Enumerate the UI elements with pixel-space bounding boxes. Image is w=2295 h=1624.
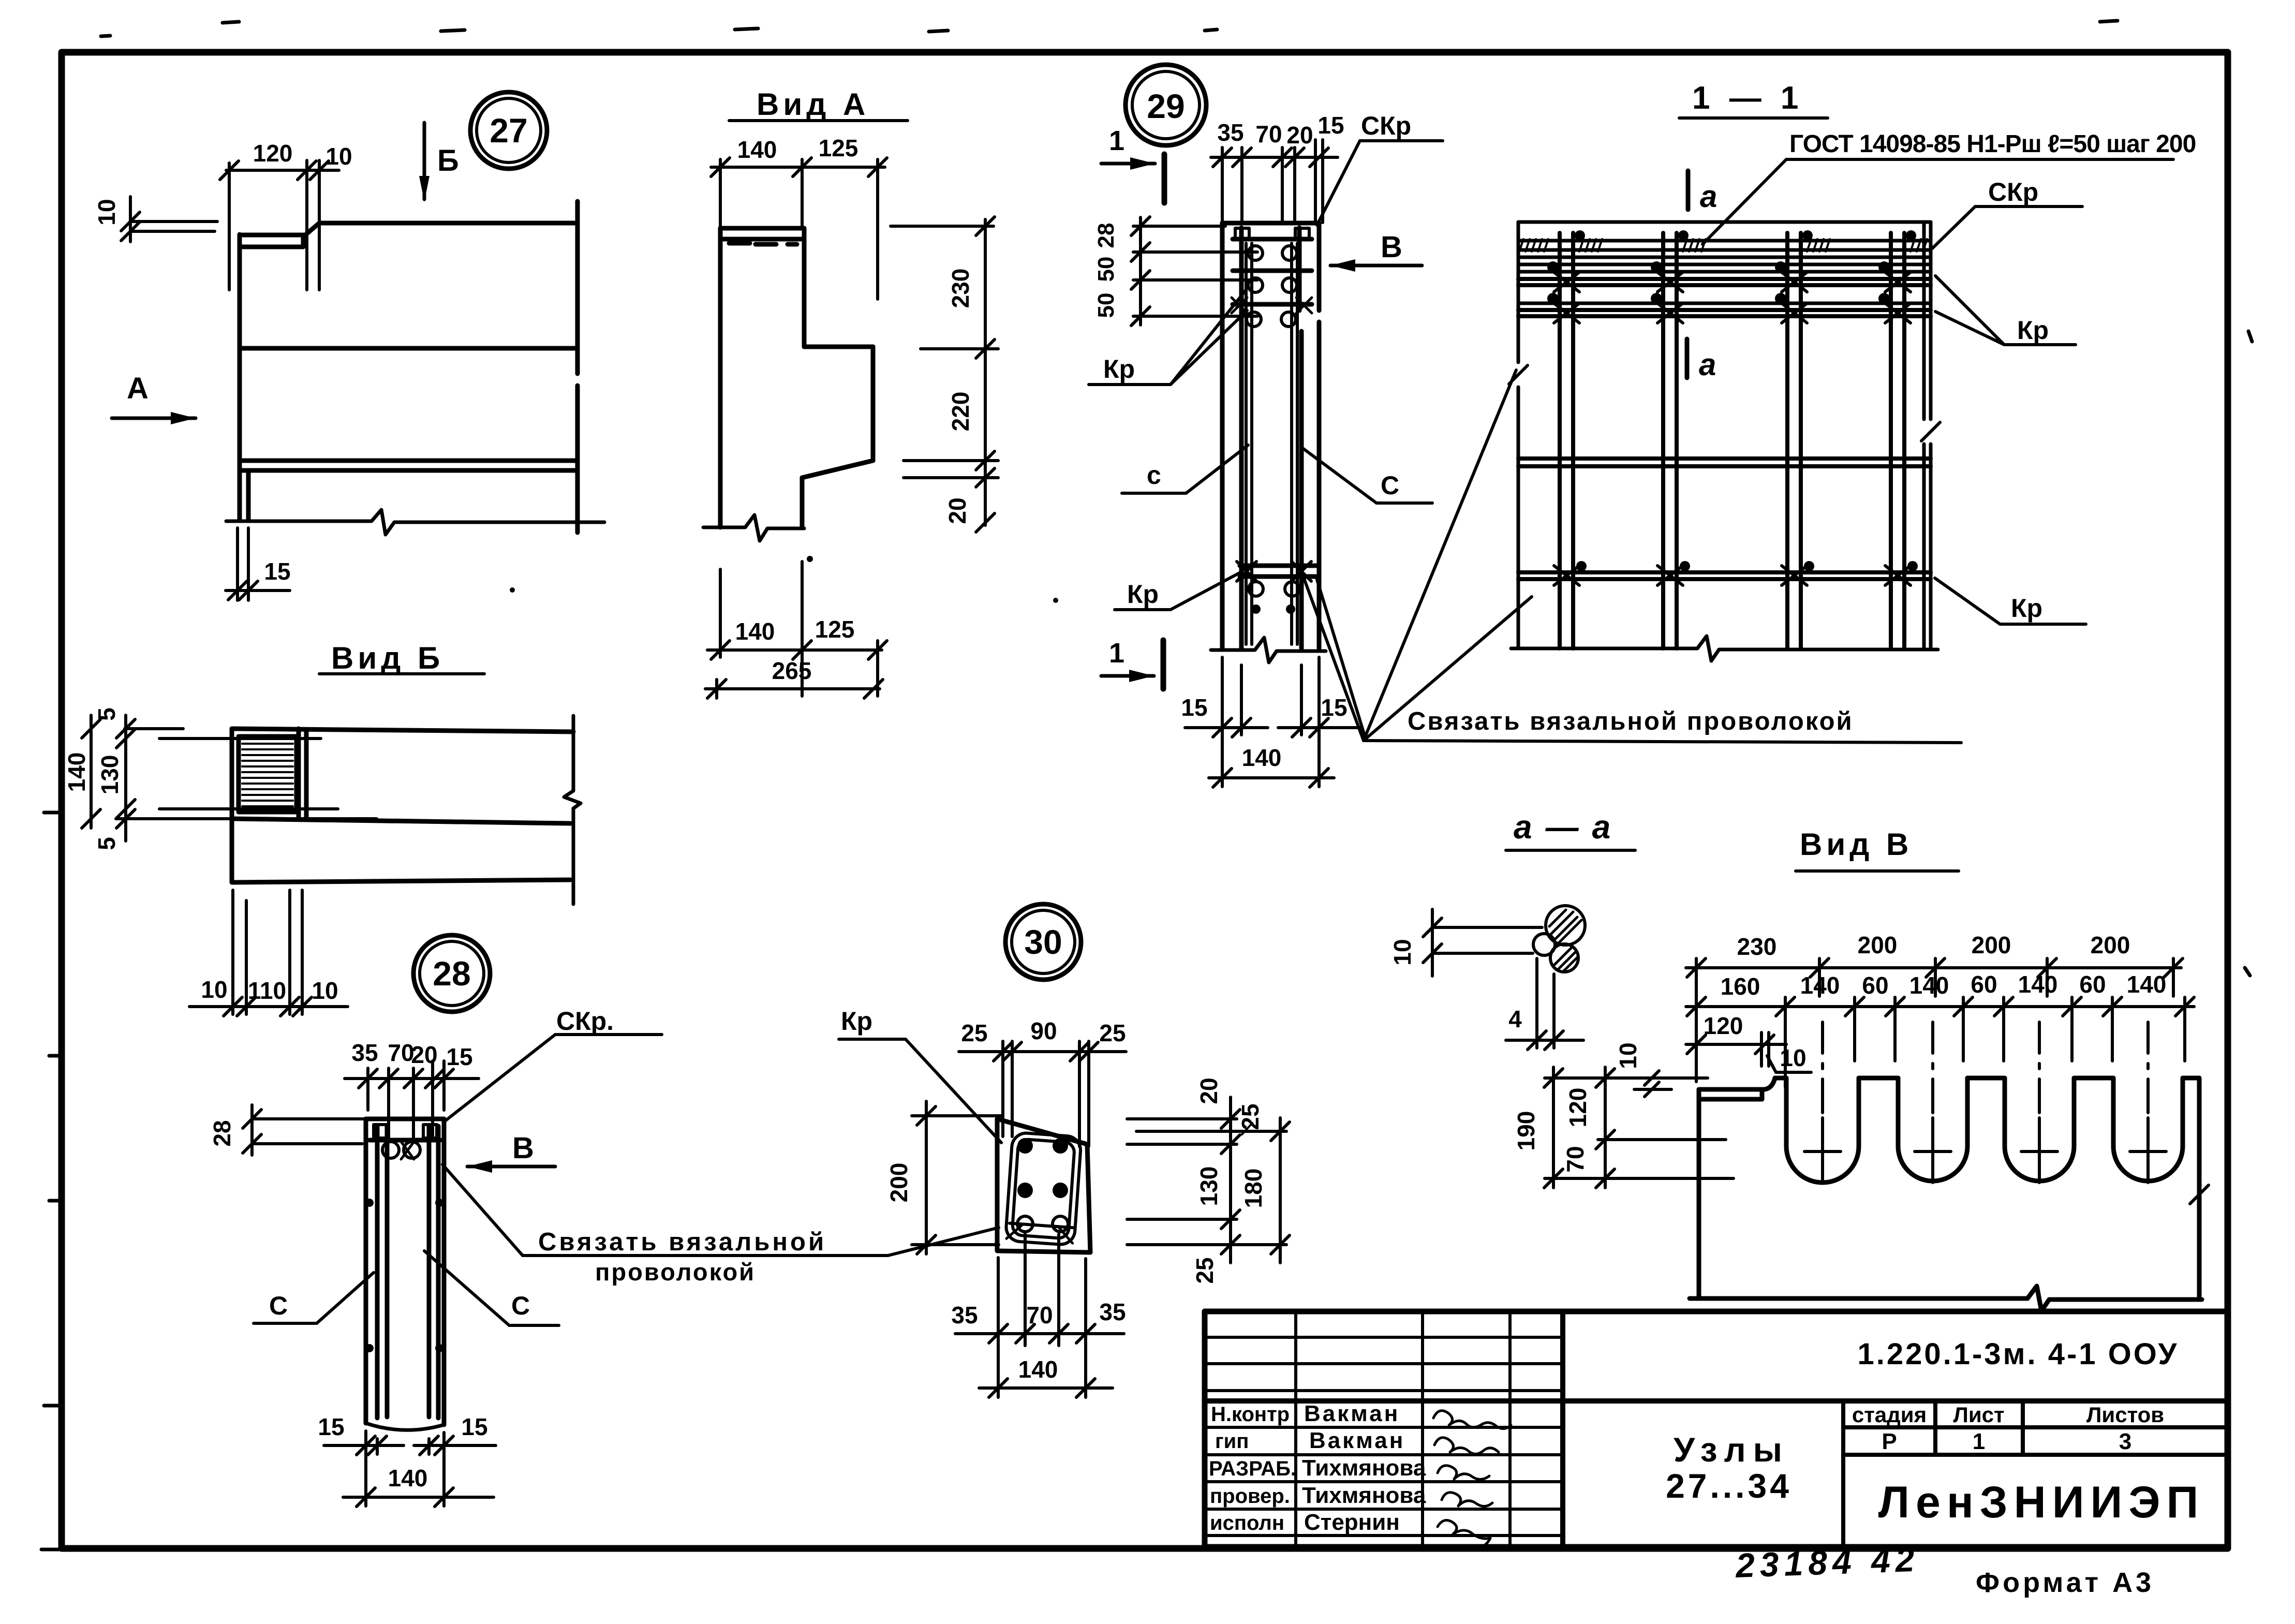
section mark 1 (top) [1101,125,1164,203]
label СКр. with leader (detail 28) [445,1007,662,1121]
section mark 1 (bottom) [1101,638,1163,689]
svg-text:4: 4 [1508,1006,1522,1032]
view arrow В (detail 28) [467,1131,555,1173]
left dimension chain 190/120/70 (view В) [1513,1067,1734,1188]
view title Вид В [1796,827,1959,871]
left dimension 28 of detail 28 [209,1105,364,1155]
svg-text:29: 29 [1147,87,1184,125]
fold mark ticks on frame [41,813,63,1549]
svg-text:130: 130 [96,755,123,795]
svg-text:70: 70 [1026,1302,1053,1328]
left dimension 200 (detail 30) [885,1101,1001,1254]
svg-text:С: С [269,1291,288,1320]
svg-text:23184 42: 23184 42 [1734,1540,1920,1585]
svg-text:РАЗРАБ.: РАЗРАБ. [1209,1457,1296,1480]
dimension 120/10 top of detail 27 [220,140,352,290]
svg-text:15: 15 [1321,694,1347,721]
bottom dimensions 10/110/10 of view Б [189,890,348,1016]
svg-text:Кр: Кр [2017,316,2049,345]
dimension row 160/140/60/140/60/140/60/140 (view В) [1686,971,2194,1087]
svg-text:28: 28 [433,954,470,993]
groove hatch in view Б plate [242,744,293,806]
slot 1 (view В) [1786,1078,1859,1183]
svg-text:200: 200 [1972,932,2011,958]
label С right (detail 28) [424,1251,559,1325]
svg-text:90: 90 [1030,1017,1057,1044]
svg-text:120: 120 [1564,1088,1591,1128]
svg-text:200: 200 [1858,932,1898,958]
svg-text:10: 10 [1389,939,1416,965]
svg-text:28: 28 [1093,223,1119,248]
figure of detail 27: column edge elevation [240,201,578,533]
svg-text:70: 70 [388,1039,414,1066]
right dimension chain 20/25/130/180/25 (detail 30) [1127,1077,1290,1283]
svg-text:140: 140 [63,752,90,792]
svg-text:с: с [1147,461,1161,490]
svg-text:Р: Р [1882,1429,1897,1454]
figure of view В: beam top with slots [1699,1078,2199,1298]
svg-text:стадия: стадия [1852,1402,1927,1427]
svg-text:120: 120 [1704,1012,1743,1039]
svg-text:Связать вязальной проволокой: Связать вязальной проволокой [1408,707,1854,735]
svg-text:провер.: провер. [1210,1485,1290,1508]
svg-text:Кр: Кр [1127,580,1159,609]
stirrup Кр rounded rect (detail 30) [1005,1132,1082,1246]
stray scan dashes [101,21,2252,976]
title block name: Узлы 27...34 [1666,1430,1792,1505]
rebar dots (detail 30) [1017,1138,1068,1232]
svg-text:35: 35 [951,1302,978,1328]
svg-text:30: 30 [1024,923,1062,961]
svg-text:Кр: Кр [841,1007,872,1036]
svg-text:1: 1 [1109,125,1124,156]
detail circle 27 [470,92,547,169]
detail circle 29 [1126,65,1206,145]
label С left (detail 28) [254,1273,374,1323]
svg-text:1: 1 [1973,1429,1985,1454]
ground line with break under detail 27 [226,510,604,535]
svg-text:5: 5 [93,837,120,850]
bottom dimensions 35/70/35 and 140 (detail 30) [951,1234,1126,1397]
lower tie Кр of detail 29 [1237,562,1316,596]
svg-text:Вид В: Вид В [1800,827,1913,862]
svg-text:В: В [512,1131,534,1165]
detail circle 28 [413,935,490,1012]
svg-text:27...34: 27...34 [1666,1467,1792,1505]
svg-text:265: 265 [772,657,812,684]
svg-text:гип: гип [1215,1430,1249,1453]
svg-text:Кр: Кр [1103,355,1135,383]
slot 4 (view В) [2113,1078,2183,1181]
figure of view Б: beam with grooved anchor plate [232,729,573,882]
label Кр with leader (detail 30) [839,1007,1001,1143]
bottom dimensions 15/15 and 140 of detail 28 [318,1413,496,1507]
svg-text:28: 28 [209,1120,235,1146]
svg-text:70: 70 [1255,121,1282,147]
detail circle 30 [1005,904,1081,980]
svg-text:25: 25 [1099,1020,1126,1046]
section mark a (top) [1688,171,1717,214]
dimension row 230/200/200/200 (view В) [1686,932,2183,1082]
dimension 10 top-left (view В) [1615,1042,1708,1097]
svg-text:200: 200 [2091,932,2130,958]
svg-text:110: 110 [248,977,286,1004]
svg-text:СКр: СКр [1361,111,1411,140]
svg-text:10: 10 [312,977,338,1004]
svg-text:А: А [127,372,149,405]
view arrow В (detail 29) [1330,230,1422,272]
slot 2 (view В) [1898,1078,1967,1181]
svg-text:140: 140 [1242,744,1282,771]
svg-text:200: 200 [885,1163,912,1203]
grid vertical posts (1-1) [1560,233,1904,648]
svg-text:a: a [1699,347,1716,382]
svg-text:1: 1 [1109,638,1124,669]
rebar dots (detail 29) [1251,604,1295,614]
title block grid lines [1205,1311,2228,1547]
slot centerlines and crosses (view В) [1804,1022,2166,1183]
svg-text:20: 20 [411,1041,437,1068]
dimension 25/90/25 top of detail 30 [959,1017,1126,1146]
dimension 140/125 top of view A [711,135,887,299]
dimension 15 bottom of detail 27 [226,528,291,600]
svg-text:a: a [1700,179,1717,214]
svg-text:35: 35 [1217,119,1243,146]
svg-text:140: 140 [2018,971,2058,998]
svg-text:140: 140 [1909,972,1949,999]
svg-text:10: 10 [1615,1042,1641,1069]
section arrow Б [419,123,459,202]
right dimension chain 230/220/20 of view A [891,217,998,532]
svg-text:140: 140 [735,618,775,645]
dimension 10 (a-a) [1389,909,1542,976]
svg-text:20: 20 [944,497,971,524]
svg-text:Вакман: Вакман [1309,1428,1405,1453]
section body of detail 30 (trapezoid) [997,1119,1090,1252]
svg-text:20: 20 [1286,122,1313,149]
svg-text:50: 50 [1093,293,1119,318]
note ГОСТ 14098-85 Н1-Рш l=50 шаг 200 [1702,130,2196,244]
svg-text:140: 140 [1800,972,1840,999]
label СКр with leader (1-1) [1932,178,2082,249]
svg-text:60: 60 [1862,972,1888,999]
svg-text:10: 10 [1780,1044,1806,1071]
grid middle row (1-1) [1518,459,1931,466]
svg-text:15: 15 [264,558,290,585]
svg-text:исполн: исполн [1210,1512,1284,1534]
svg-text:Лист: Лист [1953,1402,2004,1427]
dimension 35/70/20/15 top of detail 29 [1211,112,1344,223]
svg-text:а—а: а—а [1514,808,1624,846]
title block outer box [1205,1311,2228,1547]
dimension 10 left of detail 27 [93,197,217,242]
svg-text:20: 20 [1195,1077,1222,1104]
svg-text:140: 140 [388,1465,428,1492]
figure of detail 28: column elevation with anchors [365,1119,444,1430]
label Кр upper with leaders (detail 29) [1089,290,1247,385]
svg-text:Стернин: Стернин [1304,1510,1400,1535]
svg-text:230: 230 [1737,933,1777,960]
view title Вид Б [319,641,484,675]
svg-text:120: 120 [253,140,293,167]
svg-text:60: 60 [1971,971,1997,998]
svg-text:С: С [511,1291,530,1320]
svg-text:27: 27 [490,111,527,150]
svg-text:180: 180 [1240,1169,1267,1208]
X marks and dots at post intersections (1-1) [1554,272,1911,585]
section title а—а [1506,808,1635,850]
svg-text:230: 230 [947,269,974,308]
svg-text:1.220.1-3м. 4-1 ООУ: 1.220.1-3м. 4-1 ООУ [1857,1337,2179,1371]
svg-text:3: 3 [2119,1429,2131,1454]
slot 3 (view В) [2005,1078,2074,1181]
svg-text:Связать вязальной: Связать вязальной [538,1228,826,1256]
svg-text:15: 15 [1317,112,1344,139]
figure of view A: T-profile [720,228,873,527]
grid lower tie row (1-1) [1518,572,1931,579]
svg-text:15: 15 [446,1043,472,1070]
svg-text:10: 10 [325,143,352,170]
dimension 35/70/20/15 top of detail 28 [345,1039,479,1139]
svg-text:Узлы: Узлы [1674,1430,1789,1469]
note text Связать вязальной проволокой with converging leaders [1304,370,1961,743]
dimension 120 with 10 (view В) [1686,1012,1811,1072]
svg-text:10: 10 [201,976,227,1003]
bottom break of detail 29 [1211,638,1326,662]
svg-text:15: 15 [461,1413,487,1440]
svg-text:15: 15 [318,1413,344,1440]
section mark a (lower) [1687,339,1716,382]
svg-text:В: В [1381,230,1402,264]
svg-text:Н.контр: Н.контр [1211,1403,1290,1426]
svg-text:Вакман: Вакман [1304,1401,1400,1426]
svg-text:Кр: Кр [2011,594,2042,623]
svg-text:130: 130 [1195,1167,1222,1206]
break line bottom of view A [703,515,804,541]
svg-text:СКр: СКр [1988,178,2038,206]
grid outer edges (1-1) [1509,222,1940,648]
svg-text:25: 25 [961,1020,987,1046]
svg-text:25: 25 [1191,1257,1218,1283]
right break line of view Б [564,716,581,904]
svg-text:10: 10 [93,199,120,225]
svg-text:Вид Б: Вид Б [331,641,444,675]
label СКр with leader (detail 29) [1317,111,1443,225]
svg-text:160: 160 [1721,973,1760,1000]
svg-text:С: С [1381,471,1399,500]
svg-text:140: 140 [737,136,777,163]
svg-text:220: 220 [947,392,974,432]
handwritten signatures [1433,1411,1511,1547]
bottom dimensions 15/15 and 140 of detail 29 [1181,657,1361,787]
svg-text:140: 140 [2127,971,2167,998]
left dimension chain 28/50/50 of detail 29 [1093,217,1257,326]
svg-text:СКр.: СКр. [556,1007,614,1036]
svg-text:Вид А: Вид А [757,87,869,122]
svg-text:15: 15 [1181,694,1207,721]
bottom dimensions 140/125 and 265 of view A [705,562,887,698]
svg-text:Формат А3: Формат А3 [1976,1567,2154,1598]
svg-text:70: 70 [1562,1146,1589,1172]
grid top band horizontals (1-1) [1518,241,1931,316]
svg-text:50: 50 [1093,257,1119,282]
svg-text:Тихмянова: Тихмянова [1302,1455,1426,1481]
svg-text:Б: Б [437,144,459,178]
grid bottom edge with break (1-1) [1511,636,1938,661]
section title 1-1 [1679,80,1828,118]
svg-text:125: 125 [815,616,855,643]
svg-text:60: 60 [2079,971,2106,998]
svg-text:190: 190 [1513,1111,1539,1151]
svg-text:1 — 1: 1 — 1 [1692,80,1803,116]
figure of detail 29: column elevation [1222,223,1319,648]
svg-text:140: 140 [1018,1356,1058,1383]
signature rows texts [1209,1401,1426,1535]
svg-text:5: 5 [93,707,120,721]
left dimension chain 5/140/130/5 of view Б [63,707,377,850]
svg-text:35: 35 [1099,1298,1126,1325]
label Кр lower-right with leader (1-1) [1935,578,2086,624]
hatched bar circles (a-a) [1533,906,1585,972]
note text: Связать вязальной проволокой (detail 28) [442,1164,999,1286]
label Кр right with leaders (1-1) [1935,276,2076,345]
svg-text:35: 35 [351,1039,378,1066]
weld hatching in top band (1-1) [1519,239,1927,252]
svg-text:ГОСТ 14098-85 Н1-Рш ℓ=50 шаг 2: ГОСТ 14098-85 Н1-Рш ℓ=50 шаг 200 [1789,130,2196,158]
view title Вид А [729,87,908,122]
label Кр lower with leader (detail 29) [1115,572,1241,610]
dimension 4 (a-a) [1506,958,1583,1050]
bottom line with break (view В) [1690,1185,2209,1311]
svg-text:проволокой: проволокой [595,1258,756,1286]
view arrow А [112,372,196,424]
svg-text:Тихмянова: Тихмянова [1302,1483,1426,1508]
svg-text:125: 125 [819,135,858,161]
anchor plates and bars of detail 29 [1232,228,1312,327]
title block stage/sheet headers [1852,1402,2164,1454]
svg-text:Листов: Листов [2086,1402,2164,1427]
svg-text:ЛенЗНИИЭП: ЛенЗНИИЭП [1878,1478,2205,1527]
labels С with leaders (detail 29) [1122,445,1432,503]
